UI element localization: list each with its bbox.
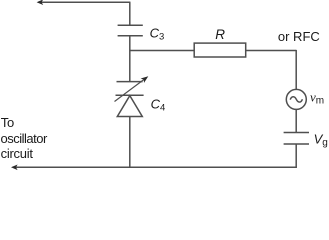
- svg-text:or RFC: or RFC: [278, 29, 320, 44]
- arrowhead top-left: [37, 0, 44, 5]
- arrowhead bottom-left: [11, 165, 18, 171]
- wire left branch upper: [129, 2, 131, 25]
- AC source sine wave: [290, 97, 302, 102]
- svg-text:Vg: Vg: [314, 131, 328, 148]
- varactor C4: [116, 82, 144, 117]
- wire right branch upper: [295, 50, 297, 90]
- svg-text:C3: C3: [150, 25, 165, 42]
- arrowhead of C4 variable arrow: [141, 76, 149, 83]
- wire junction to resistor: [130, 50, 194, 52]
- svg-text:R: R: [215, 27, 225, 42]
- svg-text:To: To: [1, 115, 14, 130]
- capacitor Vg: [284, 133, 309, 145]
- AC source vm circle: [286, 89, 306, 109]
- wire Vg to bottom: [295, 144, 297, 168]
- wire left branch mid (C3 to C4 through junction): [129, 36, 131, 82]
- resistor R: [194, 43, 246, 57]
- wire bottom horizontal: [13, 166, 297, 168]
- svg-text:circuit: circuit: [1, 146, 34, 161]
- svg-text:C4: C4: [151, 96, 166, 113]
- svg-text:vm: vm: [310, 90, 324, 107]
- capacitor C3: [118, 25, 143, 36]
- wire AC source to Vg: [295, 109, 297, 132]
- wire top horizontal to oscillator: [38, 1, 130, 3]
- wire resistor to right corner: [246, 50, 297, 52]
- svg-text:oscillator: oscillator: [1, 131, 48, 146]
- wire left branch lower (C4 to bottom): [129, 117, 131, 168]
- varactor C4 variable arrow shaft: [115, 80, 144, 102]
